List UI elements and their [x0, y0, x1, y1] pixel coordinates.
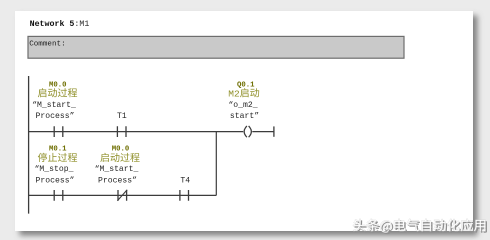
svg-text:Q0.1: Q0.1: [237, 81, 255, 89]
svg-text:Process”: Process”: [36, 177, 75, 186]
comment box: [28, 36, 404, 58]
wire: left power rail: [28, 76, 30, 214]
wire: rung 1 (coil to right terminal): [252, 131, 274, 133]
svg-text:Network 5:M1: Network 5:M1: [30, 19, 90, 29]
svg-text:“M_start_: “M_start_: [32, 101, 76, 110]
contact M0.0 (NC) rung 2: [118, 190, 127, 201]
label 启动过程 (symbol comment, NC contact): [100, 153, 139, 162]
wire: rung 1 (rail to coil): [29, 131, 244, 133]
svg-text:Comment:: Comment:: [29, 41, 65, 49]
label 启动过程 (symbol comment): [38, 88, 77, 97]
svg-text:T4: T4: [180, 177, 190, 186]
wire: branch vertical joining rung 2 to rung 1: [215, 132, 217, 196]
svg-text:M0.1: M0.1: [49, 146, 67, 154]
svg-text:T1: T1: [117, 112, 127, 121]
svg-text:start”: start”: [230, 112, 259, 121]
watermark 头条@电气自动化应用: [354, 220, 487, 234]
wire: rung 2 (rail to branch corner): [29, 194, 217, 196]
contact M0.1 (NO) rung 2: [54, 190, 63, 201]
svg-text:Process”: Process”: [36, 112, 75, 121]
svg-text:“M_stop_: “M_stop_: [35, 165, 74, 174]
svg-text:M2: M2: [228, 89, 240, 100]
right terminal tick: [273, 126, 275, 136]
contact T4 (NO): [180, 190, 189, 201]
label 停止过程 (symbol comment): [38, 153, 77, 162]
contact M0.0 (NO) rung 1: [54, 126, 63, 137]
svg-text:Process”: Process”: [98, 177, 137, 186]
contact T1 (NO): [117, 126, 126, 137]
svg-text:“M_start_: “M_start_: [95, 165, 139, 174]
svg-text:“o_m2_: “o_m2_: [228, 101, 257, 110]
coil Q0.1: [244, 126, 247, 137]
svg-text:M0.0: M0.0: [49, 81, 67, 89]
svg-text:M0.0: M0.0: [112, 146, 130, 154]
